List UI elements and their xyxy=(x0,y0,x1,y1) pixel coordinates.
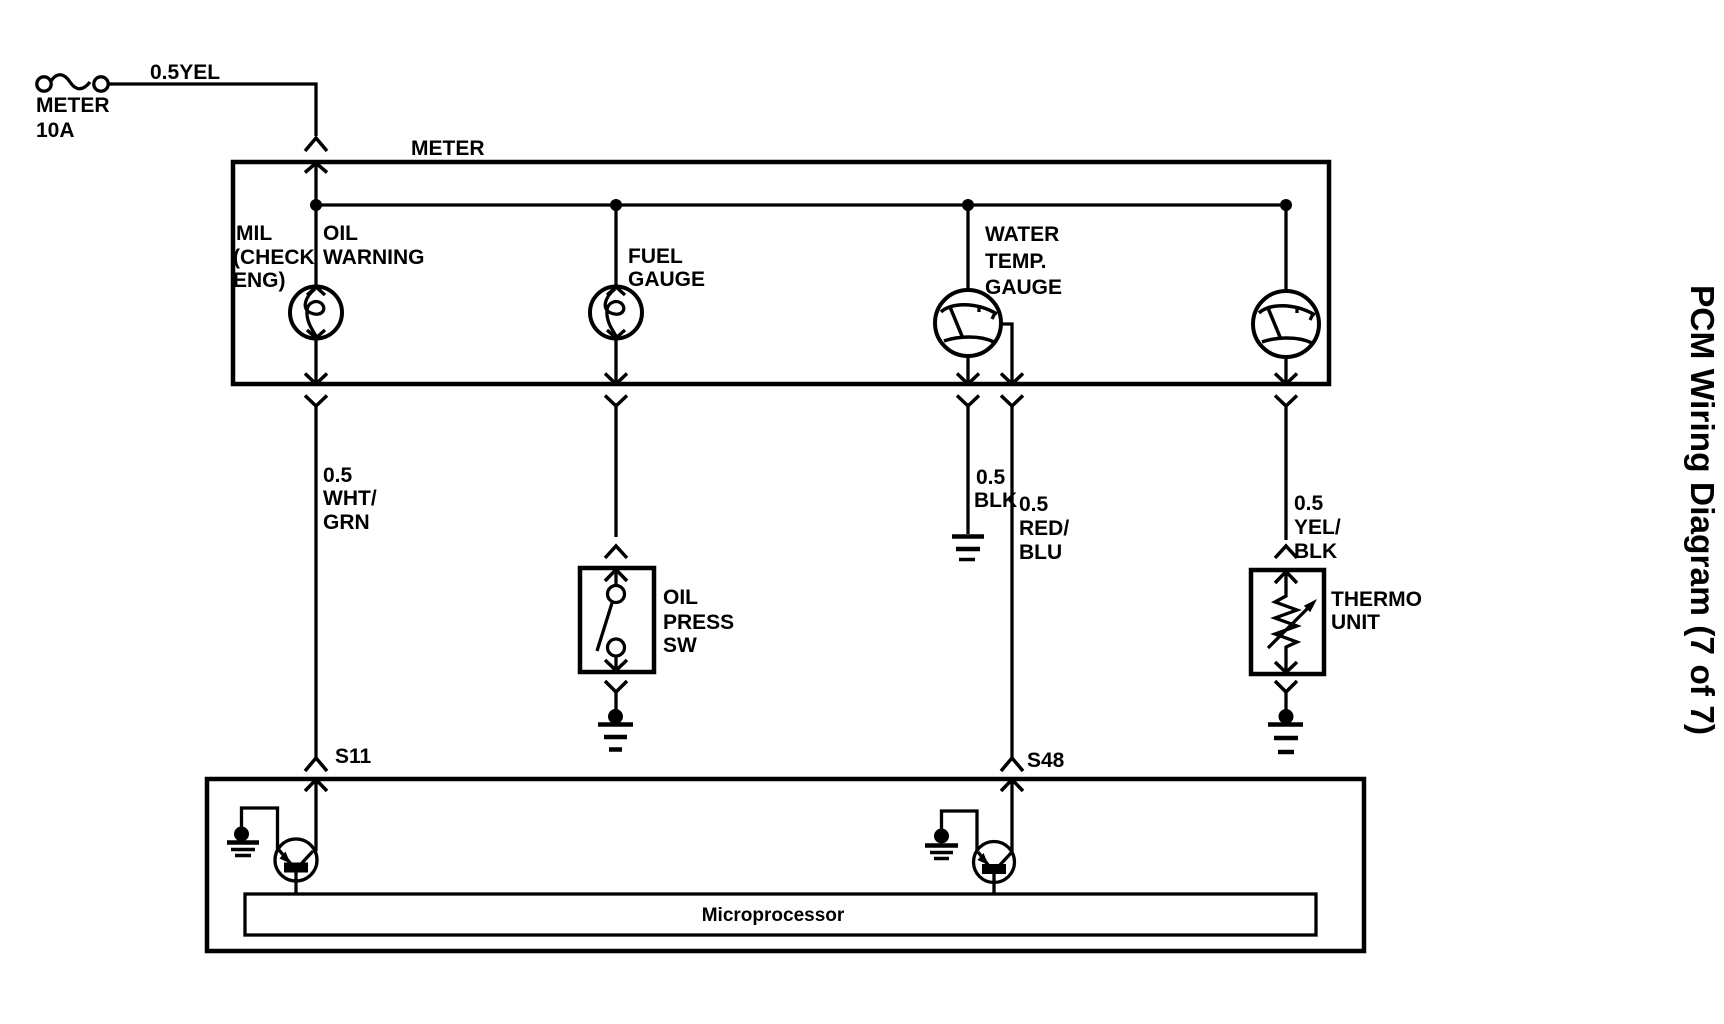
wire stub to ground OIL PRESS SW xyxy=(614,692,617,710)
connector arrow down at box bottom x1012 xyxy=(1001,374,1023,385)
lamp FUEL GAUGE xyxy=(590,287,642,339)
svg-text:0.5: 0.5 xyxy=(1019,493,1049,516)
svg-text:UNIT: UNIT xyxy=(1331,611,1380,634)
connector female V below box x1012 xyxy=(1001,396,1023,407)
wire Q1 base xyxy=(242,808,278,849)
svg-text:MIL: MIL xyxy=(236,222,272,245)
ground THERMO UNIT xyxy=(1268,709,1303,752)
svg-text:GRN: GRN xyxy=(323,511,370,534)
microprocessor bar xyxy=(245,894,1316,935)
connector female above OIL PRESS SW xyxy=(605,546,627,558)
wire into OIL PRESS SW xyxy=(614,406,617,537)
svg-text:TEMP.: TEMP. xyxy=(985,250,1046,273)
svg-text:S11: S11 xyxy=(335,745,372,768)
wire WATER TEMP branch xyxy=(966,205,969,384)
svg-text:YEL/: YEL/ xyxy=(1294,516,1341,539)
svg-text:RED/: RED/ xyxy=(1019,517,1069,540)
gauge WATER TEMP xyxy=(935,290,1001,356)
connector female above THERMO UNIT xyxy=(1275,546,1297,558)
label MIL (CHECK ENG) xyxy=(233,222,315,292)
svg-text:PRESS: PRESS xyxy=(663,611,734,634)
svg-text:WATER: WATER xyxy=(985,223,1059,246)
node junction J1 xyxy=(310,199,322,211)
connector male arrow into METER xyxy=(305,163,327,173)
svg-text:OIL: OIL xyxy=(323,222,358,245)
switch OIL PRESS SW xyxy=(580,568,654,672)
connector arrow down at box bottom x316 xyxy=(305,374,327,385)
svg-text:10A: 10A xyxy=(36,119,75,142)
label METER 10A xyxy=(36,94,110,142)
METER box xyxy=(233,162,1329,384)
connector female S48 xyxy=(1001,758,1023,771)
svg-text:SW: SW xyxy=(663,634,697,657)
wire bus inside METER xyxy=(316,203,1286,206)
gauge right xyxy=(1253,291,1319,357)
label 0.5 WHT/GRN xyxy=(323,464,377,534)
connector male arrow into PCM x316 xyxy=(305,780,327,852)
svg-text:0.5YEL: 0.5YEL xyxy=(150,61,220,84)
svg-text:S48: S48 xyxy=(1027,749,1065,772)
ground chassis BLK xyxy=(952,537,984,560)
wire 0.5 BLK xyxy=(966,406,969,534)
svg-text:ENG): ENG) xyxy=(233,269,286,292)
PCM box xyxy=(207,779,1364,951)
fuse METER 10A xyxy=(37,75,108,91)
node junction J4 xyxy=(1280,199,1292,211)
label 0.5 BLK xyxy=(974,466,1017,512)
lamp OIL WARNING xyxy=(290,287,342,339)
connector arrow down at box bottom x1286 xyxy=(1275,374,1297,385)
thermistor THERMO UNIT xyxy=(1251,570,1324,674)
label FUEL GAUGE xyxy=(628,245,705,291)
connector female V below OIL PRESS SW xyxy=(605,681,627,692)
svg-text:0.5: 0.5 xyxy=(323,464,353,487)
svg-text:THERMO: THERMO xyxy=(1331,588,1422,611)
connector female S11 xyxy=(305,758,327,771)
svg-text:WARNING: WARNING xyxy=(323,246,425,269)
connector female V below box x616 xyxy=(605,396,627,407)
wire right gauge branch xyxy=(1284,205,1287,384)
label THERMO UNIT xyxy=(1331,588,1422,634)
wire 0.5 WHT/GRN xyxy=(314,406,317,757)
connector arrow down at box bottom x616 xyxy=(605,374,627,385)
connector female V below box x968 xyxy=(957,396,979,407)
label WATER TEMP. GAUGE xyxy=(985,223,1062,299)
svg-text:Microprocessor: Microprocessor xyxy=(702,905,845,926)
connector female V below box x1286 xyxy=(1275,396,1297,407)
transistor Q1 xyxy=(275,839,317,894)
ground Q2 xyxy=(925,829,958,859)
transistor Q2 xyxy=(974,842,1015,895)
wire stub to ground THERMO UNIT xyxy=(1284,692,1287,710)
svg-text:GAUGE: GAUGE xyxy=(628,268,705,291)
connector female at METER top xyxy=(305,138,327,151)
svg-text:OIL: OIL xyxy=(663,586,698,609)
svg-text:BLK: BLK xyxy=(1294,540,1337,563)
wire 0.5YEL xyxy=(108,84,316,136)
connector female V below THERMO UNIT xyxy=(1275,681,1297,692)
wire gauge side branch xyxy=(1000,324,1012,384)
svg-text:0.5: 0.5 xyxy=(976,466,1006,489)
connector female V below box x316 xyxy=(305,396,327,407)
svg-text:METER: METER xyxy=(36,94,110,117)
svg-text:0.5: 0.5 xyxy=(1294,492,1324,515)
wire Q2 base xyxy=(942,811,978,851)
svg-text:BLU: BLU xyxy=(1019,541,1062,564)
node junction J3 xyxy=(962,199,974,211)
label OIL WARNING xyxy=(323,222,425,269)
svg-text:WHT/: WHT/ xyxy=(323,487,377,510)
node junction J2 xyxy=(610,199,622,211)
wire FUEL GAUGE branch xyxy=(614,205,617,384)
label 0.5 YEL/BLK xyxy=(1294,492,1341,563)
wire 0.5 YEL/BLK xyxy=(1284,406,1287,540)
svg-text:GAUGE: GAUGE xyxy=(985,276,1062,299)
connector male arrow into PCM x1012 xyxy=(1001,780,1023,853)
svg-text:(CHECK: (CHECK xyxy=(233,246,315,269)
svg-text:FUEL: FUEL xyxy=(628,245,683,268)
svg-text:PCM Wiring Diagram (7 of 7): PCM Wiring Diagram (7 of 7) xyxy=(1683,285,1720,735)
ground Q1 xyxy=(227,827,259,856)
ground OIL PRESS SW xyxy=(598,709,633,750)
wire OIL WARNING branch xyxy=(314,163,317,384)
connector arrow down at box bottom x968 xyxy=(957,374,979,385)
label OIL PRESS SW xyxy=(663,586,734,657)
svg-text:METER: METER xyxy=(411,137,485,160)
label 0.5 RED/BLU xyxy=(1019,493,1069,564)
wire 0.5 RED/BLU xyxy=(1010,406,1013,757)
